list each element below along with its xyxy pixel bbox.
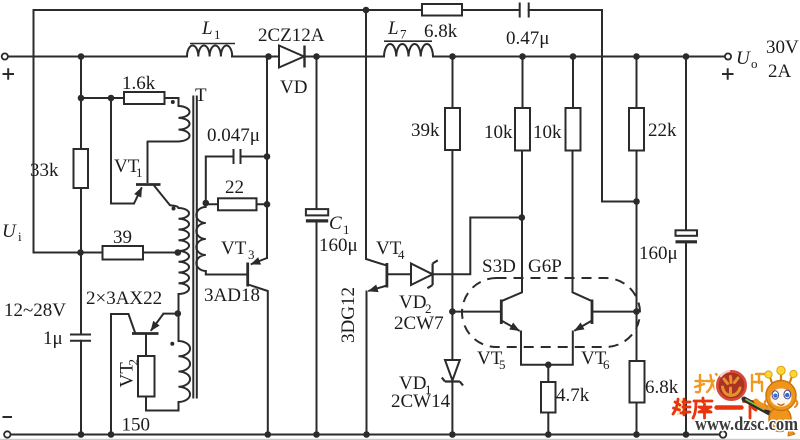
minus sign bottom left (3, 416, 13, 418)
svg-text:3DG12: 3DG12 (338, 287, 359, 343)
svg-text:0.47μ: 0.47μ (506, 28, 549, 49)
wire: emitter coupling row (521, 332, 573, 365)
phase dot middle winding (172, 207, 176, 211)
zener diode VD1 2CW14 (442, 360, 463, 386)
label VT5 (477, 348, 506, 372)
wire: VT2 collector to ground (111, 314, 135, 435)
watermark red text weikuyixia (673, 398, 758, 418)
junction dots secondary node (203, 200, 210, 207)
label VT2 rotated (117, 359, 141, 388)
watermark lens (716, 370, 747, 401)
svg-text:S3D: S3D (482, 256, 516, 277)
resistor 6.8k top (422, 4, 462, 16)
label VD2 (399, 292, 432, 316)
svg-text:150: 150 (122, 415, 151, 436)
label VT1 (114, 156, 143, 180)
svg-text:10k: 10k (533, 122, 562, 143)
label 3DG12 rotated (338, 287, 359, 343)
wire: VT4 base to VD2 (387, 273, 411, 275)
svg-text:22k: 22k (648, 120, 677, 141)
label C1 (329, 213, 350, 237)
svg-text:6: 6 (603, 357, 610, 372)
resistor 22 (218, 198, 257, 210)
wire: 39k to VD1 column (451, 150, 453, 435)
wire: VT2 base lead (145, 334, 147, 357)
resistor 10k first (515, 108, 530, 151)
label VD1 (399, 373, 432, 397)
label L7 (384, 18, 432, 42)
wire: VT4 collector column (366, 10, 386, 265)
svg-text:3AD18: 3AD18 (204, 285, 260, 306)
wire: 10k-2 drop (573, 57, 592, 301)
capacitor C1 160u (306, 219, 328, 222)
resistor 150 (138, 356, 155, 397)
wire: 39k drop (452, 57, 454, 109)
transformer T feedback winding (179, 341, 191, 402)
junction dot VT2 emitter (175, 310, 182, 317)
label Ui (2, 221, 22, 244)
capacitor 0.47u (520, 3, 529, 18)
svg-text:30V: 30V (766, 37, 799, 58)
wire: left input branch vertical (34, 10, 82, 253)
svg-text:U: U (736, 48, 751, 69)
transistor VT2 (132, 314, 164, 334)
watermark char xin in lens (723, 377, 741, 396)
transformer T primary middle winding (170, 205, 189, 313)
junction dot VT6 base node (633, 308, 640, 315)
svg-text:5: 5 (499, 357, 506, 372)
transistor VT1 (134, 142, 170, 206)
capacitor 1u (70, 335, 91, 341)
svg-text:C: C (329, 213, 342, 234)
wire: feedback winding link (146, 314, 179, 411)
resistor 10k second (566, 108, 581, 151)
phase dot feedback winding (170, 342, 174, 346)
diode VD 2CZ12A (279, 46, 305, 68)
svg-text:12~28V: 12~28V (4, 300, 66, 321)
svg-text:2CW7: 2CW7 (394, 313, 444, 334)
wire: 22k drop (636, 57, 638, 435)
watermark char pian (752, 374, 766, 391)
wire: VD2 to 10k node (433, 218, 522, 275)
transistor VT3 (248, 258, 267, 287)
wire: VT3 emitter column (266, 57, 268, 259)
watermark char zhao (695, 374, 719, 393)
svg-text:10k: 10k (484, 122, 513, 143)
terminal input plus (2, 53, 8, 59)
watermark handle (744, 399, 773, 415)
label L1 (190, 18, 235, 44)
junction dots ground rail (78, 431, 85, 438)
watermark group dzsc (673, 366, 798, 436)
wire: secondary top node (206, 157, 267, 205)
svg-text:VD: VD (399, 292, 426, 313)
junction dot emitter coupling (545, 362, 552, 369)
svg-text:1: 1 (214, 27, 221, 42)
svg-text:2CZ12A: 2CZ12A (258, 25, 325, 46)
svg-text:4: 4 (398, 247, 405, 262)
svg-text:160μ: 160μ (319, 235, 358, 256)
svg-text:1: 1 (136, 165, 143, 180)
resistor 39k (445, 108, 460, 150)
svg-text:2A: 2A (768, 61, 792, 82)
wire: VT5 base row (452, 311, 500, 313)
junction dots 39 tap (77, 249, 84, 256)
svg-text:2: 2 (126, 359, 141, 366)
wire: ground rail (11, 434, 720, 436)
svg-text:1μ: 1μ (43, 328, 63, 349)
resistor 6.8k right (630, 361, 645, 403)
phase dot top winding (171, 100, 175, 104)
resistor 33k (74, 149, 89, 188)
inductor L7 (384, 44, 433, 56)
terminal ground left (4, 431, 10, 437)
junction dot top rail (363, 7, 370, 14)
watermark sparkle (677, 400, 685, 414)
transformer T primary top winding (148, 106, 190, 142)
transistor VT4 (368, 263, 387, 291)
wire: 10k-1 drop (502, 57, 522, 301)
junction dot feedback to 22k (633, 198, 640, 205)
terminal ground right (720, 431, 727, 438)
wire: x81 divider branch (80, 57, 82, 435)
svg-text:1.6k: 1.6k (122, 73, 156, 94)
svg-text:33k: 33k (30, 160, 59, 181)
svg-text:4.7k: 4.7k (556, 385, 590, 406)
svg-text:2CW14: 2CW14 (391, 391, 451, 412)
junction dot VD2 10k node (519, 214, 526, 221)
watermark mascot (756, 366, 797, 436)
svg-text:L: L (201, 18, 213, 39)
plus sign input (3, 68, 15, 79)
wire: VT3 collector to ground (249, 285, 268, 435)
svg-text:T: T (195, 85, 207, 106)
transistor VT6 (574, 300, 592, 331)
svg-text:6.8k: 6.8k (424, 21, 458, 42)
resistor 1.6k (124, 92, 165, 104)
svg-text:o: o (751, 56, 758, 71)
transformer T secondary winding (196, 207, 206, 271)
svg-text:2×3AX22: 2×3AX22 (86, 288, 162, 309)
svg-text:VD: VD (280, 77, 307, 98)
capacitor 160u right (676, 240, 698, 243)
svg-text:L: L (387, 18, 399, 39)
resistor 39 (103, 246, 144, 260)
svg-text:www.dzsc.com: www.dzsc.com (695, 414, 798, 435)
wire: 39 tap row (81, 252, 178, 254)
svg-text:6.8k: 6.8k (645, 377, 679, 398)
wire: 1.6k node row (81, 98, 179, 106)
svg-text:VT: VT (221, 238, 247, 259)
wire: VT4 emitter to ground (366, 292, 368, 435)
wire: top feedback rail (34, 10, 637, 202)
svg-text:160μ: 160μ (639, 243, 678, 264)
svg-text:0.047μ: 0.047μ (207, 125, 260, 146)
svg-text:U: U (2, 221, 17, 242)
wire: VT2 emitter node (164, 313, 178, 315)
wire: 160u output column (685, 57, 687, 435)
wire: VT6 base row (593, 311, 637, 313)
wire: C1 column (316, 57, 318, 435)
svg-text:39k: 39k (411, 120, 440, 141)
resistor 4.7k (541, 382, 556, 413)
svg-text:7: 7 (400, 27, 407, 42)
capacitor 0.047u (234, 149, 241, 164)
svg-text:i: i (18, 229, 22, 244)
wire: VT1 emitter return (111, 98, 134, 204)
svg-text:22: 22 (225, 177, 244, 198)
transformer T core (193, 96, 197, 399)
wire: 4.7k drop (547, 365, 549, 435)
resistor 22k (629, 108, 644, 151)
wire: main positive rail (8, 56, 726, 58)
inductor L1 (187, 45, 232, 56)
dashed selection ellipse S3D G6P pair (462, 278, 640, 347)
plus sign output (722, 68, 734, 79)
svg-text:G6P: G6P (528, 256, 562, 277)
label VT3 (221, 238, 255, 262)
terminal output plus (725, 53, 731, 59)
bottom edge shadow (0, 438, 800, 440)
junction dot VT5 base node (449, 308, 456, 315)
junction dots 1.6k node (78, 95, 85, 102)
wire: VT3 base row (206, 271, 247, 275)
label VT4 (376, 238, 405, 262)
zener diode VD2 2CW7 (411, 260, 438, 288)
label Uo (736, 48, 758, 71)
label VT6 (581, 348, 610, 372)
svg-text:39: 39 (113, 227, 132, 248)
transistor VT5 (501, 300, 519, 331)
junction dots main rail (78, 53, 85, 60)
svg-text:3: 3 (248, 247, 255, 262)
